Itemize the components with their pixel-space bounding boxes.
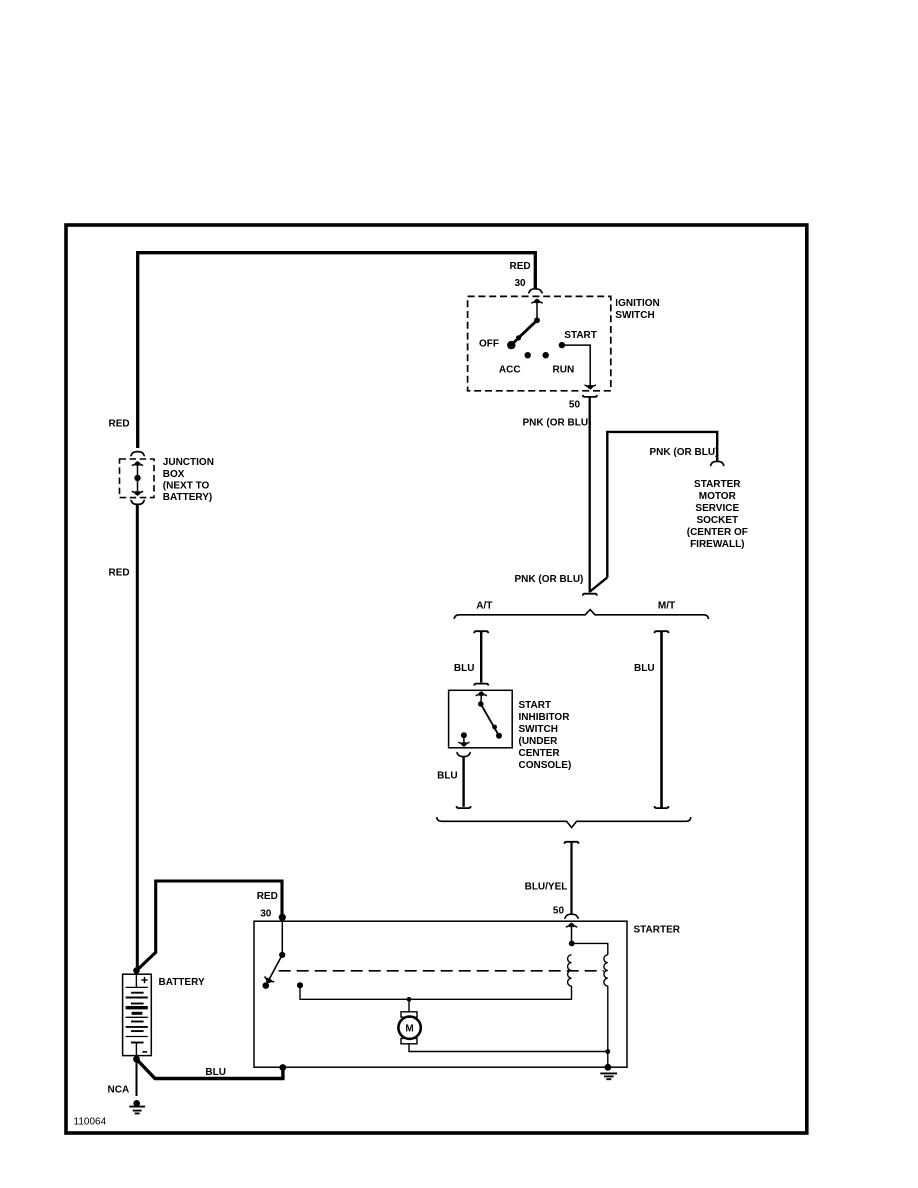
svg-text:SWITCH: SWITCH: [615, 310, 654, 321]
connector cap at ignition pin 30: [528, 289, 543, 293]
svg-text:STARTER: STARTER: [634, 925, 681, 936]
motor M1 top terminal: [401, 1012, 417, 1017]
battery B1: [123, 974, 152, 1055]
starter contact lower-left dot: [263, 982, 270, 989]
connector cup below start inhibitor switch: [456, 752, 471, 756]
wire branch to pull-in coil: [572, 943, 608, 954]
battery plus sign: [141, 977, 147, 983]
junction box connector cup bottom: [130, 500, 145, 504]
motor M1 bottom terminal: [401, 1038, 417, 1043]
wire PNK main from ignition 50 down: [589, 397, 591, 592]
svg-text:CONSOLE): CONSOLE): [519, 760, 572, 771]
arrow down at pin 50: [585, 385, 596, 390]
starter contact wire down: [281, 917, 283, 952]
svg-text:(UNDER: (UNDER: [519, 736, 559, 747]
wire START to pin 50: [562, 345, 590, 385]
svg-text:BOX: BOX: [163, 469, 185, 480]
svg-text:A/T: A/T: [476, 601, 492, 612]
svg-text:SWITCH: SWITCH: [519, 724, 558, 735]
wire main RED feed lower segment junction box to battery: [136, 505, 139, 968]
svg-text:50: 50: [569, 399, 581, 410]
M/T branch terminal bar: [654, 631, 668, 633]
connector cap above start inhibitor switch: [474, 684, 488, 686]
wire main RED feed upper segment to ignition switch: [138, 253, 536, 448]
ignition switch dashed box: [468, 296, 611, 390]
node motor tap: [407, 997, 412, 1002]
start inhibitor switch box: [449, 690, 513, 748]
svg-text:STARTER: STARTER: [694, 479, 741, 490]
battery minus sign: [142, 1051, 147, 1053]
junction node dot: [134, 475, 140, 481]
svg-text:RED: RED: [510, 261, 531, 272]
connector cap at starter pin 50: [564, 914, 579, 918]
BLU/YEL terminal bar: [564, 842, 578, 844]
svg-text:(CENTER OF: (CENTER OF: [687, 527, 748, 538]
svg-text:30: 30: [515, 278, 527, 289]
connector bar at A/T-M/T split: [583, 594, 597, 596]
A/T branch bottom terminal bar: [457, 806, 471, 808]
svg-text:RED: RED: [109, 567, 130, 578]
ignition START contact dot: [559, 342, 565, 348]
A/T branch terminal bar: [474, 631, 488, 633]
ignition RUN contact dot: [543, 352, 549, 358]
svg-text:FIREWALL): FIREWALL): [690, 539, 744, 550]
ignition arrow up (pin 30 inside): [536, 302, 538, 320]
svg-text:ACC: ACC: [499, 365, 521, 376]
dashed mechanical link solenoid: [279, 970, 604, 972]
svg-text:50: 50: [553, 905, 565, 916]
svg-text:SERVICE: SERVICE: [695, 503, 739, 514]
node starter case ground: [279, 1064, 286, 1071]
battery plates: [126, 986, 148, 988]
svg-text:RED: RED: [257, 891, 278, 902]
wire branch joining main at connector: [590, 577, 607, 591]
node starter 30: [279, 914, 286, 921]
svg-text:BLU/YEL: BLU/YEL: [525, 881, 568, 892]
battery bottom stem: [135, 1043, 137, 1056]
ground battery dot: [133, 1100, 140, 1107]
wire A/T branch BLU upper: [480, 631, 482, 682]
svg-text:IGNITION: IGNITION: [615, 298, 659, 309]
inhibitor arrow up: [480, 694, 482, 704]
wire M/T branch BLU: [660, 631, 663, 808]
svg-text:BLU: BLU: [634, 663, 655, 674]
coil pull-in (right): [604, 955, 608, 986]
svg-text:BLU: BLU: [454, 663, 475, 674]
motor M1 stem top: [408, 999, 410, 1012]
brace bottom: [437, 817, 691, 828]
wire BLU/YEL: [570, 842, 572, 914]
svg-text:CENTER: CENTER: [519, 748, 561, 759]
brace top (A/T & M/T options): [454, 610, 708, 619]
battery thick cable BLU to starter: [137, 1059, 283, 1078]
wire PNK branch to service socket: [607, 432, 717, 578]
node motor return: [605, 1049, 610, 1054]
ignition ACC contact dot: [525, 352, 531, 358]
wire hold-in coil bottom to contact: [300, 985, 572, 999]
svg-text:BLU: BLU: [205, 1067, 226, 1078]
svg-text:110064: 110064: [74, 1117, 107, 1128]
svg-text:M: M: [405, 1023, 413, 1034]
svg-text:INHIBITOR: INHIBITOR: [519, 712, 571, 723]
starter thick feed 30 from battery: [137, 881, 283, 971]
junction arrow down: [137, 478, 139, 493]
svg-text:PNK (OR BLU): PNK (OR BLU): [523, 418, 592, 429]
svg-text:M/T: M/T: [658, 601, 675, 612]
svg-text:SOCKET: SOCKET: [696, 515, 738, 526]
junction arrow up: [137, 464, 139, 479]
svg-text:RUN: RUN: [553, 365, 575, 376]
svg-text:BLU: BLU: [437, 771, 458, 782]
border frame: [66, 225, 807, 1133]
starter box: [254, 921, 627, 1067]
inhibitor contact arm: [481, 704, 499, 736]
battery top stem: [135, 972, 137, 987]
svg-text:(NEXT TO: (NEXT TO: [163, 480, 210, 491]
svg-text:OFF: OFF: [479, 339, 499, 350]
wire BLU below inhibitor: [462, 757, 464, 807]
battery top node: [133, 967, 140, 974]
junction box connector cap top: [130, 452, 145, 456]
M/T branch bottom terminal bar: [654, 806, 668, 808]
svg-text:START: START: [519, 700, 552, 711]
svg-text:PNK (OR BLU): PNK (OR BLU): [650, 447, 719, 458]
svg-text:RED: RED: [109, 418, 130, 429]
ignition OFF contact dot: [507, 341, 515, 349]
ground starter: [600, 1073, 617, 1079]
connector cap starter motor service socket: [710, 461, 725, 465]
node starter ground: [605, 1064, 612, 1071]
junction box dashed box: [120, 459, 155, 498]
svg-text:MOTOR: MOTOR: [699, 491, 737, 502]
ground battery bars: [129, 1107, 145, 1114]
svg-text:JUNCTION: JUNCTION: [163, 457, 214, 468]
svg-text:30: 30: [260, 909, 272, 920]
inhibitor lower contact dot and arrow down: [461, 732, 467, 738]
motor M1 stem bottom and wire to ground node: [409, 1044, 608, 1052]
starter contact upper dot: [279, 952, 285, 958]
starter contact lower-right dot: [297, 982, 303, 988]
svg-text:BATTERY): BATTERY): [163, 492, 212, 503]
motor M1 body: [398, 1016, 420, 1038]
svg-text:NCA: NCA: [108, 1084, 130, 1095]
svg-text:START: START: [564, 330, 597, 341]
starter arrow up at 50: [571, 924, 573, 941]
svg-text:PNK (OR BLU): PNK (OR BLU): [515, 574, 584, 585]
connector cup below ignition pin 50: [583, 395, 597, 397]
starter moving contact arm with arrow: [266, 955, 282, 986]
coil hold-in (left): [568, 955, 572, 986]
svg-text:BATTERY: BATTERY: [159, 977, 205, 988]
node solenoid top: [569, 941, 575, 947]
battery bottom node: [133, 1056, 140, 1063]
wire pull-in coil bottom down: [607, 986, 609, 1067]
ignition movable contact arm: [511, 320, 537, 345]
wire battery to ground: [136, 1062, 138, 1096]
